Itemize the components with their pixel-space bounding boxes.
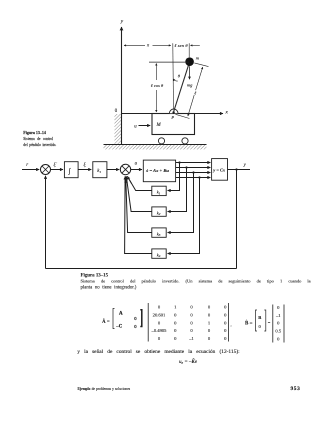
svg-text:θ: θ bbox=[178, 73, 181, 78]
svg-text:0: 0 bbox=[277, 305, 280, 310]
svg-text:0: 0 bbox=[190, 328, 193, 333]
force u arrow bbox=[139, 125, 151, 127]
svg-text:ξ̇: ξ̇ bbox=[54, 162, 58, 168]
svg-text:A: A bbox=[119, 312, 123, 317]
svg-text:0: 0 bbox=[174, 336, 177, 341]
svg-text:0: 0 bbox=[208, 305, 211, 310]
svg-text:ℓ: ℓ bbox=[194, 91, 196, 96]
svg-text:y: y bbox=[120, 19, 124, 25]
svg-text:Figura 13–14: Figura 13–14 bbox=[23, 130, 46, 135]
mg arrow bbox=[189, 66, 191, 79]
input r arrow bbox=[22, 169, 39, 171]
tap 1 bbox=[178, 161, 180, 163]
state line 2 bbox=[176, 167, 211, 169]
svg-text:ℓ sen θ: ℓ sen θ bbox=[174, 43, 188, 48]
svg-text:x: x bbox=[146, 44, 150, 49]
svg-text:k4: k4 bbox=[157, 252, 161, 258]
svg-text:–0.4905: –0.4905 bbox=[151, 328, 168, 333]
svg-text:del péndulo invertido.: del péndulo invertido. bbox=[23, 143, 56, 147]
svg-text:0: 0 bbox=[259, 324, 262, 329]
plant block x=Ax+Bu bbox=[143, 160, 175, 182]
svg-text:ẋ = Ax + Bu: ẋ = Ax + Bu bbox=[145, 168, 169, 173]
l leader from bob bbox=[194, 63, 208, 67]
state line 1 bbox=[176, 162, 211, 164]
svg-text:–C: –C bbox=[115, 324, 122, 329]
svg-text:B: B bbox=[258, 315, 261, 320]
wire sum2 to plant bbox=[131, 169, 142, 171]
svg-text:0: 0 bbox=[158, 305, 161, 310]
partitioned matrix right bracket bbox=[140, 310, 142, 327]
wall hatching bbox=[115, 114, 122, 144]
svg-text:Sistema de control: Sistema de control bbox=[23, 137, 53, 141]
svg-text:0: 0 bbox=[208, 313, 211, 318]
big matrix entries bbox=[151, 305, 228, 341]
svg-text:r: r bbox=[26, 163, 28, 168]
wheel left bbox=[158, 138, 164, 144]
wire sum1 to integrator bbox=[51, 169, 64, 171]
caption figura 13-15 bbox=[81, 273, 311, 290]
tap 2 bbox=[185, 166, 187, 168]
pendulum bob m bbox=[185, 57, 194, 66]
svg-text:20.601: 20.601 bbox=[153, 313, 166, 318]
svg-text:u: u bbox=[135, 161, 138, 166]
cart body M bbox=[152, 114, 195, 135]
k1 output wire to sum2 bbox=[127, 176, 152, 190]
pivot dot bbox=[172, 111, 174, 113]
wire k1 to sum2 bbox=[107, 169, 119, 171]
svg-text:0: 0 bbox=[158, 320, 161, 325]
svg-text:1: 1 bbox=[174, 305, 177, 310]
x-axis bbox=[122, 113, 224, 115]
big matrix left bracket bbox=[147, 303, 149, 342]
svg-text:,: , bbox=[231, 322, 232, 328]
svg-text:planta no tiene integrador.): planta no tiene integrador.) bbox=[81, 286, 137, 291]
svg-text:ue = –K̂e: ue = –K̂e bbox=[179, 359, 198, 365]
horizontal reference line at bob height bbox=[149, 61, 189, 63]
tap 4 bbox=[198, 176, 200, 178]
pendulum rod bbox=[174, 62, 190, 111]
svg-text:0: 0 bbox=[277, 321, 280, 326]
gain block k3 bbox=[152, 228, 166, 237]
svg-text:–1: –1 bbox=[188, 336, 194, 341]
state line 4 bbox=[176, 177, 211, 179]
svg-text:0: 0 bbox=[190, 305, 193, 310]
svg-text:0: 0 bbox=[224, 328, 227, 333]
y-axis bbox=[121, 27, 123, 145]
svg-text:M: M bbox=[156, 123, 162, 128]
svg-text:1: 1 bbox=[208, 320, 211, 325]
svg-text:Sistema de control del péndulo: Sistema de control del péndulo invertido… bbox=[81, 279, 311, 284]
svg-text:x: x bbox=[225, 110, 229, 116]
svg-text:0: 0 bbox=[134, 324, 137, 329]
svg-text:=: = bbox=[268, 320, 271, 325]
svg-text:0: 0 bbox=[115, 109, 118, 114]
svg-text:P: P bbox=[170, 115, 174, 120]
summing junction 2 bbox=[120, 164, 130, 174]
svg-text:0: 0 bbox=[224, 336, 227, 341]
svg-text:–1: –1 bbox=[275, 313, 281, 318]
pivot dome bbox=[169, 109, 178, 113]
state line 3 bbox=[176, 172, 211, 174]
svg-text:k3: k3 bbox=[157, 231, 161, 237]
svg-text:0: 0 bbox=[190, 320, 193, 325]
svg-text:0: 0 bbox=[224, 305, 227, 310]
svg-text:ℓ cos θ: ℓ cos θ bbox=[151, 83, 164, 88]
svg-text:0: 0 bbox=[158, 336, 161, 341]
k3 output wire to sum2 bbox=[126, 176, 152, 232]
ground line bbox=[104, 144, 207, 146]
svg-text:k1: k1 bbox=[157, 190, 161, 196]
l leader from pivot bbox=[176, 114, 190, 118]
gain block k4 bbox=[152, 249, 166, 258]
svg-text:0: 0 bbox=[208, 336, 211, 341]
svg-text:0: 0 bbox=[224, 313, 227, 318]
l dimension line upper bbox=[196, 67, 203, 90]
gain block k1 (integral gain) bbox=[93, 162, 107, 178]
svg-text:0.5: 0.5 bbox=[275, 329, 281, 334]
svg-text:0: 0 bbox=[174, 328, 177, 333]
svg-text:0: 0 bbox=[277, 336, 280, 341]
l cos theta dimension arrow up bbox=[155, 63, 157, 80]
svg-text:mg: mg bbox=[187, 82, 193, 87]
vector left bracket bbox=[272, 305, 274, 343]
svg-text:ξ: ξ bbox=[84, 162, 87, 168]
svg-text:y la señal de control se obtie: y la señal de control se obtiene mediant… bbox=[77, 348, 240, 355]
output wire y bbox=[228, 169, 251, 171]
l sen theta right arrow bbox=[190, 44, 196, 46]
svg-text:0: 0 bbox=[208, 328, 211, 333]
feedback bottom rail bbox=[46, 268, 237, 270]
svg-text:0: 0 bbox=[224, 320, 227, 325]
tap 3 bbox=[192, 171, 194, 173]
wheel right bbox=[182, 138, 188, 144]
feedback left vertical into sum1 bbox=[45, 176, 47, 269]
svg-text:y = Cx: y = Cx bbox=[212, 167, 226, 172]
svg-text:0: 0 bbox=[134, 316, 137, 321]
svg-text:u: u bbox=[134, 124, 137, 129]
summing junction 1 bbox=[41, 165, 51, 175]
svg-text:0: 0 bbox=[174, 320, 177, 325]
wire integrator to k1 bbox=[78, 169, 91, 171]
feedback right vertical bbox=[236, 170, 238, 269]
output block y=Cx bbox=[212, 159, 228, 181]
l sen theta right tail bbox=[197, 44, 200, 46]
svg-text:Ejemplo de problemas y solucio: Ejemplo de problemas y soluciones bbox=[78, 387, 131, 391]
l cos theta dimension arrow down bbox=[155, 90, 157, 112]
svg-text:B̂ =: B̂ = bbox=[245, 321, 253, 327]
feedback junction dot bbox=[235, 168, 237, 170]
svg-text:953: 953 bbox=[291, 386, 301, 392]
svg-text:y: y bbox=[243, 163, 247, 168]
gain block k1 feedback bbox=[152, 186, 166, 195]
vertical reference line through pivot bbox=[172, 43, 175, 109]
vector entries bbox=[275, 305, 282, 341]
vector right bracket bbox=[283, 305, 285, 343]
x dimension arrows bbox=[124, 44, 145, 46]
B bracket right bbox=[264, 310, 266, 331]
svg-text:m: m bbox=[196, 55, 200, 60]
svg-text:Â =: Â = bbox=[102, 319, 110, 325]
B bracket left bbox=[256, 310, 258, 331]
l dimension line lower bbox=[188, 95, 194, 116]
partitioned matrix left bracket bbox=[113, 309, 115, 329]
svg-text:0: 0 bbox=[190, 313, 193, 318]
svg-text:k2: k2 bbox=[157, 210, 161, 216]
svg-text:k1: k1 bbox=[97, 169, 101, 174]
svg-text:0: 0 bbox=[174, 313, 177, 318]
big matrix right bracket bbox=[228, 303, 230, 342]
theta arc bbox=[173, 79, 178, 81]
gain block k2 bbox=[152, 207, 166, 216]
vertical line through bob bbox=[188, 43, 190, 57]
caption figura 13-14 bbox=[23, 130, 56, 147]
k2 output wire to sum2 bbox=[126, 176, 152, 211]
ground hatching bbox=[104, 144, 207, 149]
k4 output wire to sum2 bbox=[125, 176, 152, 253]
integrator block bbox=[64, 162, 78, 178]
